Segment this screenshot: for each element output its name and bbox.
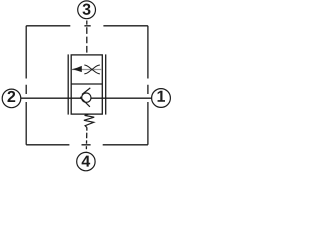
label 3	[83, 4, 91, 15]
pilot line to port 3	[86, 21, 88, 55]
pilot line to port 4	[85, 127, 88, 152]
envelope right edge	[147, 26, 149, 145]
envelope top edge	[26, 25, 148, 27]
port 2 circle	[2, 89, 21, 108]
check valve seat	[82, 88, 90, 95]
port 2 line	[21, 97, 81, 99]
envelope bottom edge	[26, 144, 148, 146]
restrictor curve A	[84, 65, 100, 74]
label 4	[82, 156, 91, 167]
port 3 circle	[78, 1, 96, 19]
check valve seat lower arm	[81, 98, 90, 107]
spring	[84, 114, 94, 127]
envelope left edge	[25, 26, 27, 145]
port 4 circle	[77, 152, 95, 170]
check valve seat wedge	[80, 96, 83, 99]
port 1 line	[91, 97, 152, 99]
label 2	[8, 91, 16, 102]
restrictor curve B	[84, 65, 100, 74]
check valve ball	[82, 93, 91, 102]
restrictor shaft	[72, 69, 102, 71]
port 1 circle	[152, 89, 171, 108]
label 1	[158, 91, 165, 102]
box divider	[71, 83, 102, 85]
restrictor arrow	[72, 66, 82, 72]
body line right	[105, 54, 107, 114]
body line left	[67, 54, 69, 114]
valve body box	[71, 55, 102, 114]
